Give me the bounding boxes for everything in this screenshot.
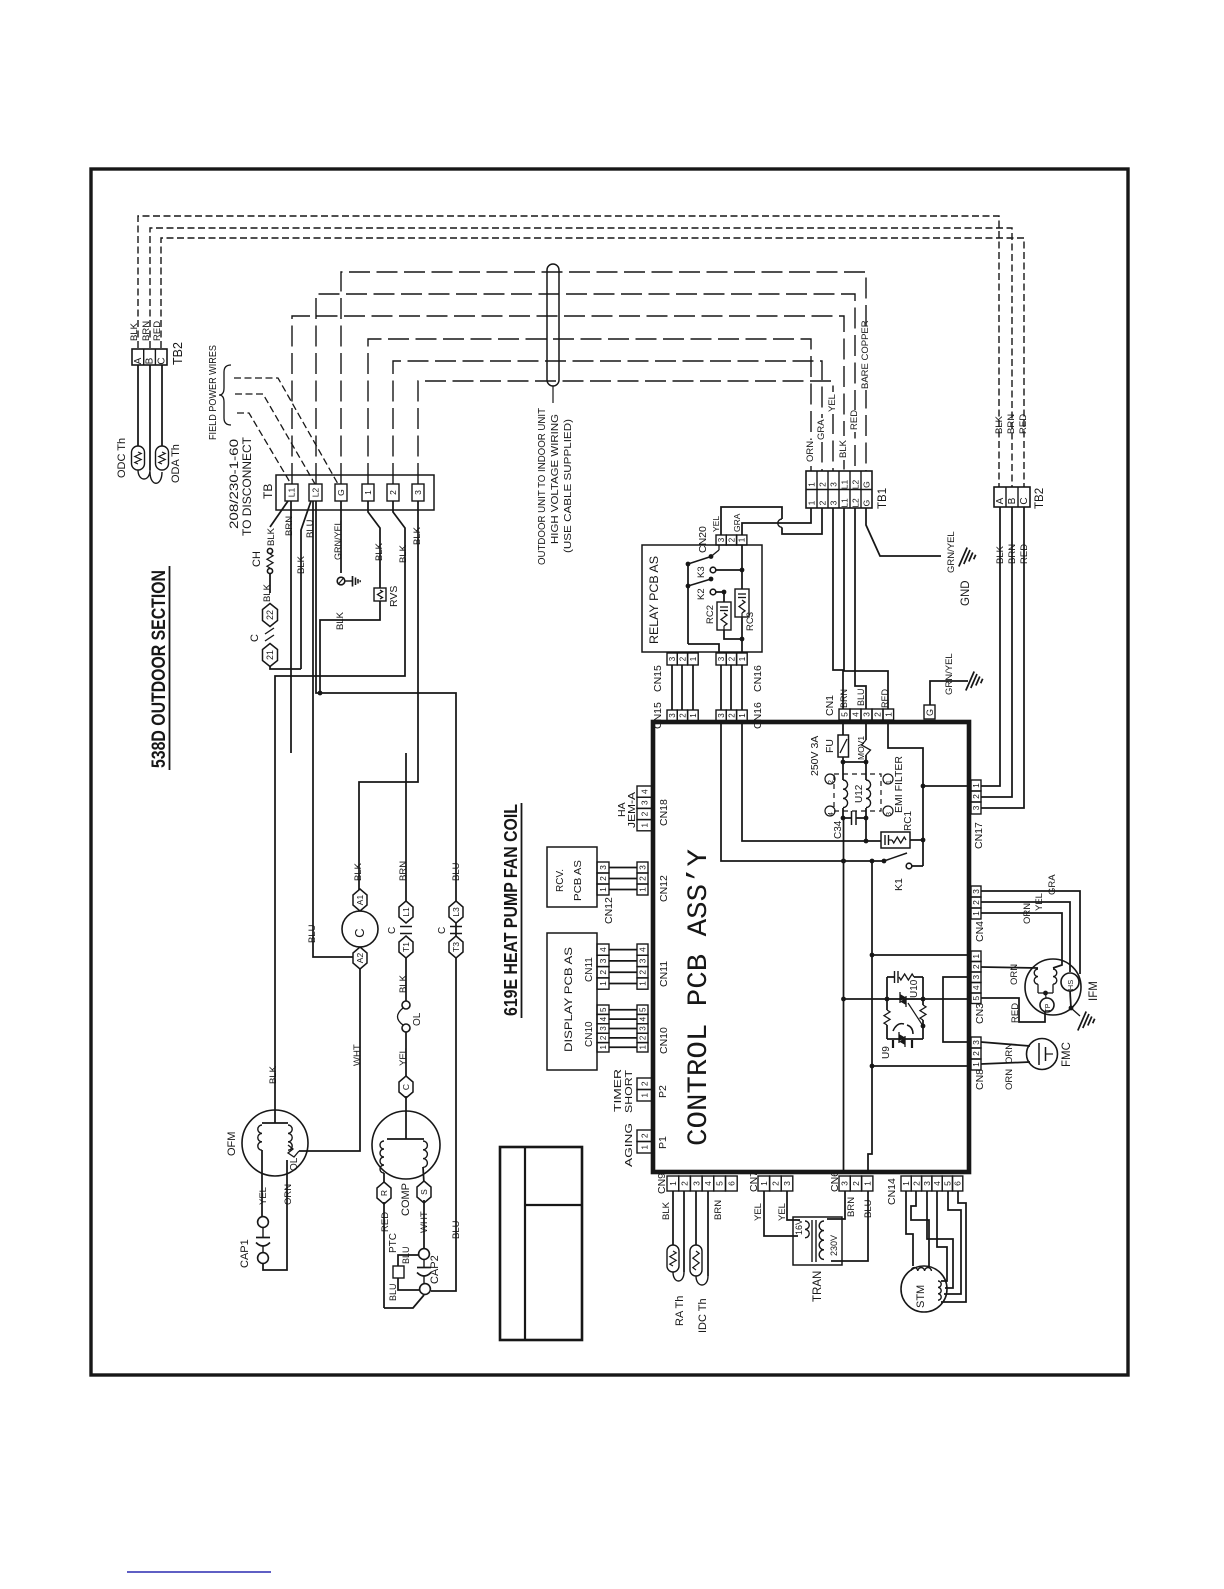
wire TB2-C to ODA Th (161, 365, 163, 446)
terminal hexagon C (comp) (399, 1076, 413, 1098)
label BRN CN6-3 (846, 1197, 857, 1217)
svg-text:619E HEAT PUMP FAN COIL: 619E HEAT PUMP FAN COIL (500, 804, 521, 1016)
wire CN9-4 return (696, 1191, 708, 1285)
svg-text:4: 4 (598, 947, 608, 952)
svg-text:C: C (1019, 497, 1030, 504)
label GRN/YEL (TB1 ground) (946, 531, 957, 573)
svg-text:2: 2 (678, 656, 687, 661)
label YEL CN20-3 (711, 516, 721, 532)
capacitor CAP2 (417, 1249, 441, 1295)
label BLK above TB2r (994, 415, 1005, 434)
wire CN1-5 to fuse (842, 720, 844, 735)
label HIGH VOLTAGE WIRING (549, 414, 561, 544)
wire GRN/YEL from TB-G (333, 501, 343, 573)
svg-text:2: 2 (971, 794, 981, 799)
wire RC2 top (723, 592, 725, 602)
terminal hexagon R (377, 1173, 391, 1204)
svg-text:K3: K3 (696, 566, 707, 578)
svg-text:2: 2 (640, 811, 650, 816)
OFM overload OL zigzag (288, 1145, 299, 1157)
thermistor ODC Th (132, 446, 145, 470)
svg-text:TB1: TB1 (877, 488, 889, 509)
svg-text:CAP2: CAP2 (429, 1255, 441, 1284)
wire to chassis ground (345, 580, 352, 582)
wire U10 frame (887, 977, 923, 999)
svg-text:BLK: BLK (374, 542, 385, 561)
label BLU CN6-1 (863, 1199, 874, 1218)
svg-text:CN10: CN10 (584, 1021, 595, 1047)
svg-text:3: 3 (840, 1181, 850, 1186)
wire CN4-3 GRA to HS (981, 874, 1080, 974)
wire CN17-1 internal (921, 784, 968, 789)
wire CN14-5 to STM (944, 1191, 961, 1294)
svg-text:3: 3 (599, 1026, 608, 1031)
wire CN9-2 return (673, 1191, 684, 1281)
svg-text:CN3: CN3 (974, 1003, 986, 1024)
wire HS to ground (1069, 991, 1080, 1016)
svg-text:CN11: CN11 (584, 957, 595, 982)
svg-text:1: 1 (971, 783, 981, 788)
terminal hexagon 21 (263, 644, 278, 667)
svg-text:CN12: CN12 (603, 897, 615, 924)
wire coil left leads (841, 762, 846, 820)
wire CN7-1 to TRAN (764, 1191, 798, 1236)
svg-text:SHORT: SHORT (623, 1069, 635, 1113)
wire TB2r-C to CN17-3 (981, 507, 1030, 808)
svg-text:RA Th: RA Th (674, 1296, 686, 1326)
svg-text:COMP: COMP (400, 1183, 412, 1216)
svg-text:BLU: BLU (451, 1220, 462, 1239)
wire CN15 pin1 link (692, 665, 694, 710)
wire CN16-3 to K1 (721, 722, 884, 863)
svg-text:T3: T3 (451, 942, 461, 952)
wire CN4-2 YEL to HS (981, 893, 1070, 972)
svg-text:RC2: RC2 (705, 605, 716, 624)
svg-text:CN17: CN17 (973, 822, 985, 849)
wire CN16 pin2 link (730, 665, 732, 710)
wire TB1-3 to CN1-5 (833, 508, 843, 709)
IFM windings (1034, 969, 1057, 995)
svg-text:BRN: BRN (713, 1200, 724, 1220)
STM coil right (938, 1281, 941, 1300)
svg-text:YEL: YEL (1034, 893, 1045, 911)
label FMC (1061, 1042, 1073, 1067)
wire TB2-A to ODC Th (137, 365, 139, 446)
wire ODA return U-bend (150, 472, 162, 483)
svg-text:C: C (156, 357, 167, 364)
svg-text:YEL: YEL (398, 1048, 409, 1066)
connector CN17 (971, 780, 985, 849)
pcb DISPLAY PCB AS box (547, 933, 597, 1070)
label ORN TB1-1 (804, 440, 816, 464)
wire CN16 pin3 link (720, 665, 722, 710)
wire CN15 pin2 link (681, 665, 683, 710)
connector CN12 (cable) (597, 862, 615, 924)
gate U10 (908, 1003, 925, 1028)
label SHORT (623, 1069, 635, 1113)
svg-text:OUTDOOR UNIT TO INDOOR UNIT: OUTDOOR UNIT TO INDOOR UNIT (536, 407, 548, 565)
terminal hexagon L3 (449, 901, 463, 923)
svg-text:3: 3 (829, 482, 839, 487)
label BRN above TB2r (1006, 414, 1017, 434)
svg-text:C: C (437, 927, 448, 934)
svg-text:1: 1 (363, 490, 373, 495)
svg-text:L2: L2 (311, 488, 321, 498)
label EMI FILTER (893, 756, 905, 813)
svg-text:GRN/YEL: GRN/YEL (946, 531, 957, 573)
svg-text:U9: U9 (881, 1046, 892, 1059)
svg-text:OL: OL (289, 1157, 300, 1171)
label GRA CN20-1 (732, 513, 742, 532)
pin circle 1 (883, 774, 893, 784)
terminal TB G (335, 484, 347, 501)
wire RC2 bottom to node (724, 630, 744, 641)
motor COMP (372, 1111, 440, 1179)
label RELAY PCB AS (649, 556, 661, 644)
wire C hex to COMP (405, 1096, 407, 1112)
wire BLU1 from TB-L2 to A2 (305, 501, 354, 957)
wire CH diagonal from TB-L1 (270, 501, 288, 527)
svg-text:CN14: CN14 (886, 1178, 898, 1205)
connector CN11 (display) (584, 944, 609, 989)
svg-text:1: 1 (638, 981, 648, 986)
svg-text:RED: RED (152, 321, 163, 341)
svg-text:2: 2 (828, 780, 835, 784)
wire RED from R (380, 1202, 391, 1308)
wire OL to C hex (398, 1032, 409, 1079)
label (USE CABLE SUPPLIED) (562, 419, 574, 553)
connector CN3 (971, 951, 986, 1024)
svg-text:3: 3 (717, 656, 726, 661)
svg-text:A: A (995, 497, 1006, 504)
svg-text:HS: HS (1066, 980, 1075, 990)
terminal hexagon A2 (353, 947, 367, 969)
svg-text:WHT: WHT (419, 1211, 430, 1233)
wire RC1 to K1 node (910, 838, 925, 843)
svg-text:1: 1 (759, 1181, 769, 1186)
svg-text:BLK: BLK (335, 611, 346, 630)
wire 21 to BLK junction (270, 666, 301, 669)
svg-text:3: 3 (971, 975, 981, 980)
wire RVS to BLU2 junction (318, 601, 380, 695)
label PCB AS (RCV) (572, 860, 584, 901)
pin circle 2 (825, 774, 835, 784)
footer link underline (127, 1571, 271, 1573)
svg-text:5: 5 (942, 1181, 952, 1186)
terminal TB L2 (309, 484, 322, 501)
wire TB1-G to ground (866, 508, 941, 556)
label JEM-A (626, 792, 638, 828)
terminal hexagon L1 (399, 901, 413, 923)
svg-text:EMI FILTER: EMI FILTER (893, 756, 905, 813)
svg-text:1: 1 (689, 656, 698, 661)
connector CN15 lower (667, 710, 698, 721)
label BLU at L3 (451, 862, 462, 881)
svg-text:3: 3 (638, 865, 648, 870)
svg-text:BRN: BRN (1006, 414, 1017, 434)
svg-text:BLU: BLU (307, 924, 318, 943)
svg-text:CH: CH (251, 551, 263, 567)
connector P1 (637, 1130, 669, 1153)
label GRA TB1-2 (815, 418, 827, 442)
motor IFM (1025, 959, 1081, 1015)
svg-text:G: G (925, 709, 935, 716)
svg-text:2: 2 (971, 900, 981, 905)
relay rail left (686, 562, 691, 644)
resistor right U10 (920, 999, 926, 1039)
wire K3 to RC3 node (716, 568, 745, 573)
svg-text:1: 1 (599, 1045, 608, 1050)
svg-text:BLK: BLK (262, 583, 273, 602)
wire rail from EMI right to RC1 (864, 818, 869, 843)
svg-text:CN15: CN15 (652, 665, 664, 692)
svg-text:2: 2 (599, 1035, 608, 1040)
svg-text:1: 1 (668, 1181, 678, 1186)
svg-text:2: 2 (727, 713, 736, 718)
svg-text:1: 1 (738, 537, 747, 542)
brace field power wires (219, 365, 231, 425)
COMP winding (380, 1112, 427, 1173)
wire CN20-1 to TB1-1 (742, 508, 811, 535)
svg-text:2: 2 (680, 1181, 690, 1186)
terminal hexagon T3 (449, 936, 463, 958)
title 619E HEAT PUMP FAN COIL (500, 803, 522, 1018)
wire CN3-2 ORN to IFM coil (981, 964, 1038, 985)
connector CN4 (971, 886, 986, 942)
wire BLK from TB-L2 (296, 501, 311, 669)
label BRN wire B (141, 321, 152, 341)
wire R to CAP2 bottom (384, 1295, 424, 1308)
label BLK CN9-1 (661, 1201, 672, 1220)
svg-text:IDC Th: IDC Th (697, 1298, 709, 1333)
wire CN14-3 to STM (927, 1191, 953, 1288)
svg-text:L1: L1 (840, 480, 850, 490)
svg-text:3: 3 (717, 537, 726, 542)
svg-text:RC3: RC3 (745, 612, 756, 631)
terminal TB 1 (362, 484, 374, 501)
wire TB2r-A to CN17-1 (981, 507, 1006, 786)
svg-text:STM: STM (915, 1285, 927, 1308)
svg-text:RCV.: RCV. (554, 869, 566, 892)
label BLK above CH (266, 527, 277, 546)
svg-text:BRN: BRN (1007, 544, 1018, 564)
overload OL compressor (398, 1001, 424, 1032)
wire CN14-2 to STM (911, 1191, 929, 1266)
svg-text:3: 3 (971, 805, 981, 810)
svg-text:CN7: CN7 (748, 1171, 760, 1192)
svg-text:ORN: ORN (283, 1184, 294, 1205)
svg-text:2: 2 (598, 970, 608, 975)
svg-text:250V 3A: 250V 3A (809, 736, 821, 776)
wire CAP1 to ORN (263, 1160, 287, 1270)
wire dashed BRN bus B (150, 228, 1012, 487)
label RED above TB2r (1018, 414, 1029, 434)
svg-text:CN1: CN1 (824, 695, 836, 716)
border frame (91, 169, 1128, 1375)
wire TB1-L1 to CN1-1 (844, 508, 888, 709)
svg-text:2: 2 (598, 876, 608, 881)
svg-text:CONTROL PCB ASS’Y: CONTROL PCB ASS’Y (684, 849, 715, 1146)
svg-text:3: 3 (638, 958, 648, 963)
label RED wire C (152, 321, 163, 341)
label BLK wire A (129, 322, 140, 341)
svg-text:U12: U12 (854, 784, 865, 803)
heat sensor HS (1061, 973, 1079, 991)
TRAN core (812, 1220, 816, 1262)
wire K2 to RC2 node (716, 590, 727, 595)
svg-text:BRN: BRN (284, 516, 295, 536)
label 250V 3A (809, 736, 821, 776)
wire T1 to OL (398, 958, 409, 1001)
legend table (500, 1147, 582, 1340)
connector CN11 (board) (637, 944, 670, 989)
svg-text:FU: FU (824, 739, 836, 753)
svg-text:RED: RED (1018, 414, 1029, 434)
label CN16 upper (752, 665, 764, 692)
svg-text:2: 2 (818, 500, 828, 505)
thermistor IDC Th (690, 1245, 709, 1333)
svg-text:4: 4 (599, 1016, 608, 1021)
svg-text:3: 3 (862, 712, 872, 717)
svg-text:A1: A1 (355, 895, 365, 906)
terminal block TB2 (indoor) (994, 487, 1046, 509)
connector P2 (637, 1078, 669, 1101)
svg-text:4: 4 (971, 985, 981, 990)
svg-text:4: 4 (638, 1016, 647, 1021)
svg-text:OFM: OFM (226, 1132, 238, 1156)
svg-text:AGING: AGING (623, 1123, 635, 1167)
svg-text:TB2: TB2 (171, 342, 185, 365)
svg-text:A2: A2 (355, 953, 365, 964)
stepper motor STM (901, 1266, 947, 1312)
svg-text:3: 3 (598, 865, 608, 870)
svg-text:C: C (249, 634, 261, 642)
connector CN16 lower (716, 710, 747, 721)
svg-text:GRA: GRA (732, 513, 742, 532)
wire PTC top to CAP2 top (398, 1246, 419, 1266)
svg-text:S: S (419, 1189, 429, 1195)
svg-text:3: 3 (829, 500, 839, 505)
svg-text:5: 5 (599, 1007, 608, 1012)
resistor left U9 (884, 999, 890, 1039)
connector CN15 upper (667, 653, 698, 665)
connector CN10 (board) (637, 1005, 670, 1054)
wire CN14-4 to STM (937, 1191, 947, 1281)
svg-text:CN20: CN20 (697, 526, 709, 553)
thermistor PTC box (388, 1233, 404, 1278)
terminal TB 2 (387, 484, 399, 501)
wire bus 3 to TB1-3 (418, 381, 833, 484)
FMC capacitor (1039, 1043, 1053, 1065)
svg-text:A: A (133, 357, 144, 364)
TRAN primary 16V (794, 1219, 809, 1238)
svg-text:6: 6 (953, 1181, 963, 1186)
wire junction row top (843, 761, 866, 763)
svg-text:BLK: BLK (661, 1201, 672, 1220)
svg-text:P2: P2 (657, 1085, 669, 1098)
thermal protector TP (1040, 993, 1054, 1012)
svg-text:BLK: BLK (268, 1065, 279, 1084)
svg-text:PCB AS: PCB AS (572, 860, 584, 901)
svg-text:G: G (862, 500, 872, 507)
snubber RC1 (881, 811, 914, 848)
svg-text:HIGH VOLTAGE WIRING: HIGH VOLTAGE WIRING (549, 414, 561, 544)
OFM internal lead (274, 1110, 276, 1123)
contactor coil C (342, 911, 378, 947)
resistor-capacitor RC3 (735, 589, 756, 631)
svg-text:3: 3 (922, 1181, 932, 1186)
label CN15 upper (652, 665, 664, 692)
thermistor ODA Th (156, 446, 169, 470)
wire CN6-3 to TRAN (827, 1191, 845, 1219)
wire ODC return U-bend (138, 470, 150, 479)
svg-text:BLU: BLU (401, 1246, 411, 1264)
label 208/230-1-60 (227, 439, 241, 529)
terminal block TB1 (806, 471, 889, 509)
resistor-capacitor RC2 (705, 602, 731, 630)
svg-text:TP: TP (1045, 1003, 1052, 1012)
label TRAN (812, 1271, 824, 1302)
label ODA Th (170, 444, 182, 483)
pin circle 4 (825, 806, 835, 816)
screw terminal ground (337, 577, 345, 585)
svg-text:3: 3 (413, 490, 423, 495)
wire CN9-1 to RA Th (672, 1191, 674, 1245)
wire BRN to L1 (398, 753, 409, 901)
wire OFM YEL to CAP1 (258, 1150, 269, 1217)
svg-text:2: 2 (818, 482, 828, 487)
svg-text:CAP1: CAP1 (239, 1239, 251, 1268)
svg-text:3: 3 (640, 800, 650, 805)
svg-text:1: 1 (640, 1145, 650, 1150)
svg-text:IFM: IFM (1088, 981, 1100, 1001)
svg-text:2: 2 (727, 656, 736, 661)
svg-text:1: 1 (598, 981, 608, 986)
svg-text:BLK: BLK (412, 526, 423, 545)
wire field power 3 (to L1) (237, 413, 291, 484)
svg-text:3: 3 (717, 713, 726, 718)
relay K2 (688, 577, 716, 600)
wire CN4-1 ORN to IFM (981, 903, 1062, 968)
wire fuse to junction (841, 757, 846, 764)
pcb RELAY PCB AS box (642, 545, 762, 652)
wire BLU2 from TB-L2 to L3 (316, 501, 456, 1291)
svg-text:BLK: BLK (995, 545, 1006, 564)
svg-text:2: 2 (727, 537, 736, 542)
svg-text:3: 3 (668, 713, 677, 718)
svg-text:1: 1 (807, 500, 817, 505)
connector CN20 (697, 526, 747, 553)
svg-text:B: B (1007, 497, 1018, 504)
label CH (251, 551, 263, 567)
wire U9 bottom rail (887, 1038, 923, 1040)
terminal TB L1 (285, 484, 298, 501)
svg-text:4: 4 (640, 789, 650, 794)
svg-text:CN8: CN8 (974, 1069, 986, 1090)
label ODC Th (116, 438, 128, 478)
svg-text:GND: GND (960, 580, 972, 606)
svg-text:5: 5 (638, 1007, 647, 1012)
terminal strip TB (261, 475, 434, 510)
label OL (OFM) (289, 1157, 300, 1171)
label CN15 lower (652, 702, 664, 729)
wire CN20-3 to TB1-2 with hop (721, 507, 822, 535)
wire A2 to OFM OL (WHT) (299, 969, 363, 1151)
filter U12 dashed box (834, 774, 881, 811)
svg-text:2: 2 (851, 1181, 861, 1186)
wire bus L1 to TB1-L1 (292, 316, 844, 484)
wire CN15 pin3 link (671, 665, 673, 710)
